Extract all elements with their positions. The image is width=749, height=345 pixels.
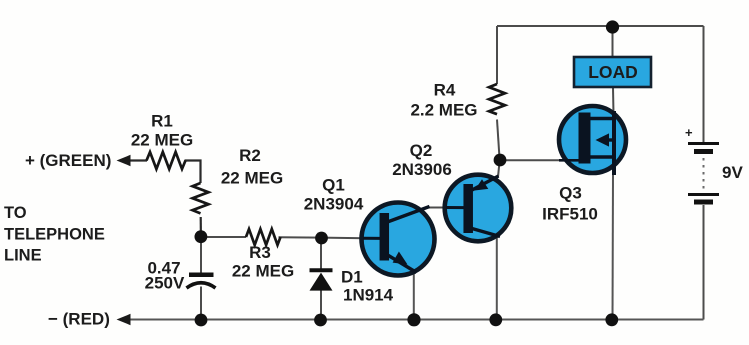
wire LOAD top stub	[612, 30, 614, 57]
wire Q1 collector to Q2 base	[428, 207, 448, 209]
wire Q1 emitter drop to bottom rail	[413, 269, 415, 320]
label Q1	[322, 176, 345, 195]
wire node A down to capacitor	[200, 237, 202, 273]
battery B1 short plate 1	[694, 149, 713, 154]
label R2	[239, 146, 261, 165]
diode D1 triangle	[310, 273, 333, 291]
transistor Q1 collector lead	[386, 207, 430, 223]
label R3	[249, 243, 271, 262]
svg-text:22 MEG: 22 MEG	[232, 262, 294, 281]
svg-text:TELEPHONE: TELEPHONE	[4, 226, 105, 244]
value R2 22 MEG	[221, 169, 283, 188]
label R4	[434, 81, 456, 100]
transistor Q2 body	[445, 175, 512, 242]
resistor R1	[147, 152, 186, 169]
value C1 250V	[145, 274, 185, 293]
svg-text:22 MEG: 22 MEG	[131, 131, 193, 150]
label plus green terminal	[25, 151, 111, 170]
value Q2 2N3906	[392, 160, 452, 179]
svg-text:9V: 9V	[722, 163, 743, 182]
transistor Q3 channel line	[612, 111, 616, 175]
label TO TELEPHONE LINE	[4, 204, 105, 265]
wire top rail from R4 top to battery top corner	[497, 25, 704, 27]
transistor Q1 body	[362, 203, 435, 276]
wire battery top drop	[703, 26, 705, 142]
transistor Q2 collector lead	[472, 229, 500, 237]
svg-text:2N3906: 2N3906	[392, 160, 452, 179]
transistor Q2 base lead	[446, 206, 465, 209]
wire R4 top lead	[496, 26, 498, 84]
load label	[588, 62, 638, 82]
svg-text:1N914: 1N914	[343, 286, 394, 305]
junction node D (top rail/LOAD)	[606, 20, 619, 33]
junction node B (R3/D1/Q1 base)	[315, 232, 328, 245]
resistor R3	[246, 229, 281, 245]
label battery 9V	[722, 163, 743, 182]
resistor R2	[193, 183, 209, 213]
wire R4 bottom lead to node	[497, 120, 500, 159]
wire R2 bottom to node A	[200, 217, 202, 237]
junction node C (R4/Q2 emitter/Q3 gate)	[494, 154, 507, 167]
wire bottom rail	[129, 319, 704, 321]
transistor Q2 base bar	[463, 184, 473, 233]
junction node I (Q3 source/bottom rail)	[605, 313, 618, 326]
svg-text:R4: R4	[434, 81, 456, 100]
label D1	[341, 268, 363, 287]
wire Q3 source drop to bottom rail	[612, 174, 615, 320]
wire R3 to diode node	[279, 236, 322, 238]
transistor Q3 gate bar	[579, 113, 591, 164]
label R1	[151, 112, 173, 131]
capacitor C1 0.47 top plate	[189, 272, 214, 277]
svg-text:Q3: Q3	[559, 184, 582, 203]
transistor Q3 gate lead	[559, 159, 579, 162]
junction node F (D1/bottom rail)	[314, 314, 327, 327]
value C1 0.47	[147, 259, 180, 278]
transistor Q1 base bar	[380, 213, 390, 261]
wire capacitor bottom to rail	[200, 287, 202, 320]
transistor Q3 drain stub	[590, 117, 614, 120]
svg-text:250V: 250V	[145, 274, 185, 293]
svg-text:Q2: Q2	[410, 141, 433, 160]
svg-text:TO: TO	[4, 204, 27, 222]
wire diode bottom lead	[320, 290, 322, 320]
svg-text:R2: R2	[239, 146, 261, 165]
resistor R4	[489, 84, 505, 114]
transistor Q3 body-diode arrow	[596, 133, 610, 146]
wire R1 to R2 corner	[185, 161, 201, 184]
label Q3	[559, 184, 582, 203]
value Q1 2N3904	[304, 195, 364, 214]
battery B1 long plate 2	[688, 193, 719, 196]
diode D1 cathode bar	[310, 268, 333, 272]
battery B1 positive long plate	[688, 142, 719, 145]
svg-text:Q1: Q1	[322, 176, 345, 195]
wire battery bottom drop	[703, 205, 705, 320]
transistor Q3 body	[559, 106, 626, 173]
svg-text:+: +	[685, 125, 693, 140]
svg-text:+ (GREEN): + (GREEN)	[25, 151, 111, 170]
svg-text:22 MEG: 22 MEG	[221, 169, 283, 188]
label Q2	[410, 141, 433, 160]
svg-text:R1: R1	[151, 112, 173, 131]
wire green lead to R1	[128, 159, 147, 161]
svg-text:LINE: LINE	[4, 247, 42, 265]
battery B1 dotted cell divider	[703, 158, 705, 191]
transistor Q1 base lead	[363, 237, 381, 240]
value Q3 IRF510	[542, 205, 598, 224]
svg-text:IRF510: IRF510	[542, 205, 598, 224]
junction node G (Q1 emitter/bottom rail)	[407, 313, 420, 326]
wire diode top lead	[320, 238, 322, 269]
wire node A to R3	[201, 236, 246, 238]
load box	[574, 57, 651, 87]
transistor Q2 emitter arrow	[475, 179, 489, 190]
svg-text:2.2 MEG: 2.2 MEG	[410, 101, 477, 120]
wire Q2 collector drop to bottom rail	[496, 237, 498, 320]
junction node H (Q2 collector/bottom rail)	[489, 313, 502, 326]
value D1 1N914	[343, 286, 394, 305]
svg-text:R3: R3	[249, 243, 271, 262]
value R3 22 MEG	[232, 262, 294, 281]
transistor Q1 emitter lead	[386, 254, 417, 273]
svg-text:D1: D1	[341, 268, 363, 287]
svg-text:LOAD: LOAD	[588, 62, 638, 82]
wire diode node to Q1 base	[322, 237, 366, 240]
junction node A (R2/R3/C1)	[195, 230, 208, 243]
capacitor C1 curved bottom plate	[187, 283, 216, 288]
battery B1 short plate 2	[694, 200, 713, 205]
arrow to telephone line (green lead)	[117, 155, 131, 166]
svg-text:− (RED): − (RED)	[48, 310, 110, 329]
battery B1 plus sign	[685, 125, 693, 140]
transistor Q2 emitter lead	[472, 176, 499, 190]
svg-text:2N3904: 2N3904	[304, 195, 364, 214]
value R1 22 MEG	[131, 131, 193, 150]
transistor Q3 body-diode stub	[606, 138, 614, 141]
wire Q2 emitter up to node	[498, 160, 500, 177]
arrow to telephone line (red lead)	[117, 314, 131, 325]
wire node to Q3 gate	[500, 159, 560, 161]
transistor Q1 emitter arrow	[393, 252, 408, 265]
label minus red terminal	[48, 310, 110, 329]
transistor Q3 source stub	[590, 155, 614, 158]
junction node E (C1/bottom rail)	[195, 314, 208, 327]
wire LOAD bottom stub to Q3 drain	[612, 88, 615, 115]
value R4 2.2 MEG	[410, 101, 477, 120]
